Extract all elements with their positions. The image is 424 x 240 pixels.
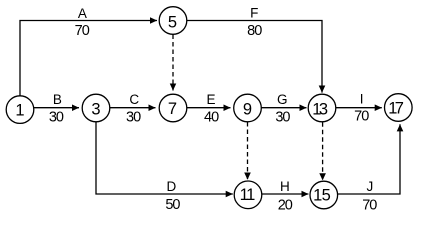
svg-text:9: 9 <box>243 100 252 118</box>
svg-text:20: 20 <box>278 197 293 213</box>
wire activity I from node 13 to node 17 <box>336 107 382 109</box>
svg-text:70: 70 <box>362 197 377 213</box>
svg-text:50: 50 <box>165 197 180 213</box>
svg-text:80: 80 <box>247 23 262 39</box>
node 1 <box>6 96 34 124</box>
wire activity H from node 11 to node 15 <box>262 193 308 195</box>
svg-text:7: 7 <box>168 100 177 118</box>
svg-text:D: D <box>167 179 177 194</box>
svg-text:A: A <box>78 6 87 21</box>
svg-text:30: 30 <box>49 109 64 125</box>
svg-text:G: G <box>277 92 288 107</box>
svg-text:H: H <box>280 179 290 194</box>
wire activity G from node 9 to node 13 <box>261 107 306 109</box>
node 9 <box>234 94 262 122</box>
svg-text:5: 5 <box>168 13 177 31</box>
dummy dashed arrow from node 5 to node 7 <box>172 35 174 91</box>
svg-text:C: C <box>129 92 139 107</box>
wire activity A from node 1 to node 5 <box>20 21 157 96</box>
svg-text:1: 1 <box>246 186 255 204</box>
svg-text:30: 30 <box>275 109 290 125</box>
svg-text:I: I <box>360 92 364 107</box>
node 3 <box>82 94 110 122</box>
node 17 <box>385 94 413 122</box>
node 13 <box>308 94 336 122</box>
svg-text:F: F <box>250 6 258 21</box>
svg-text:70: 70 <box>354 108 369 124</box>
node 5 <box>159 7 187 35</box>
wire activity F from node 5 to node 13 <box>187 21 322 93</box>
wire activity D from node 3 to node 11 <box>96 122 233 194</box>
svg-text:1: 1 <box>15 102 24 120</box>
svg-text:70: 70 <box>75 23 90 39</box>
node 15 <box>310 181 338 209</box>
svg-text:7: 7 <box>395 100 404 118</box>
wire activity E from node 7 to node 9 <box>187 107 231 109</box>
svg-text:30: 30 <box>126 109 141 125</box>
svg-text:40: 40 <box>204 109 219 125</box>
svg-text:E: E <box>206 92 215 107</box>
node 7 <box>159 94 187 122</box>
svg-text:J: J <box>367 179 374 194</box>
dummy dashed arrow from node 13 to node 15 <box>322 122 324 180</box>
wire activity J from node 15 to node 17 <box>338 124 400 194</box>
node 11 <box>234 181 262 209</box>
wire activity C from node 3 to node 7 <box>110 107 156 109</box>
svg-text:5: 5 <box>322 186 331 204</box>
svg-text:3: 3 <box>319 100 328 118</box>
svg-text:B: B <box>53 92 62 107</box>
wire activity B from node 1 to node 3 <box>34 107 79 109</box>
svg-text:3: 3 <box>91 100 100 118</box>
dummy dashed arrow from node 9 to node 11 <box>247 122 249 180</box>
